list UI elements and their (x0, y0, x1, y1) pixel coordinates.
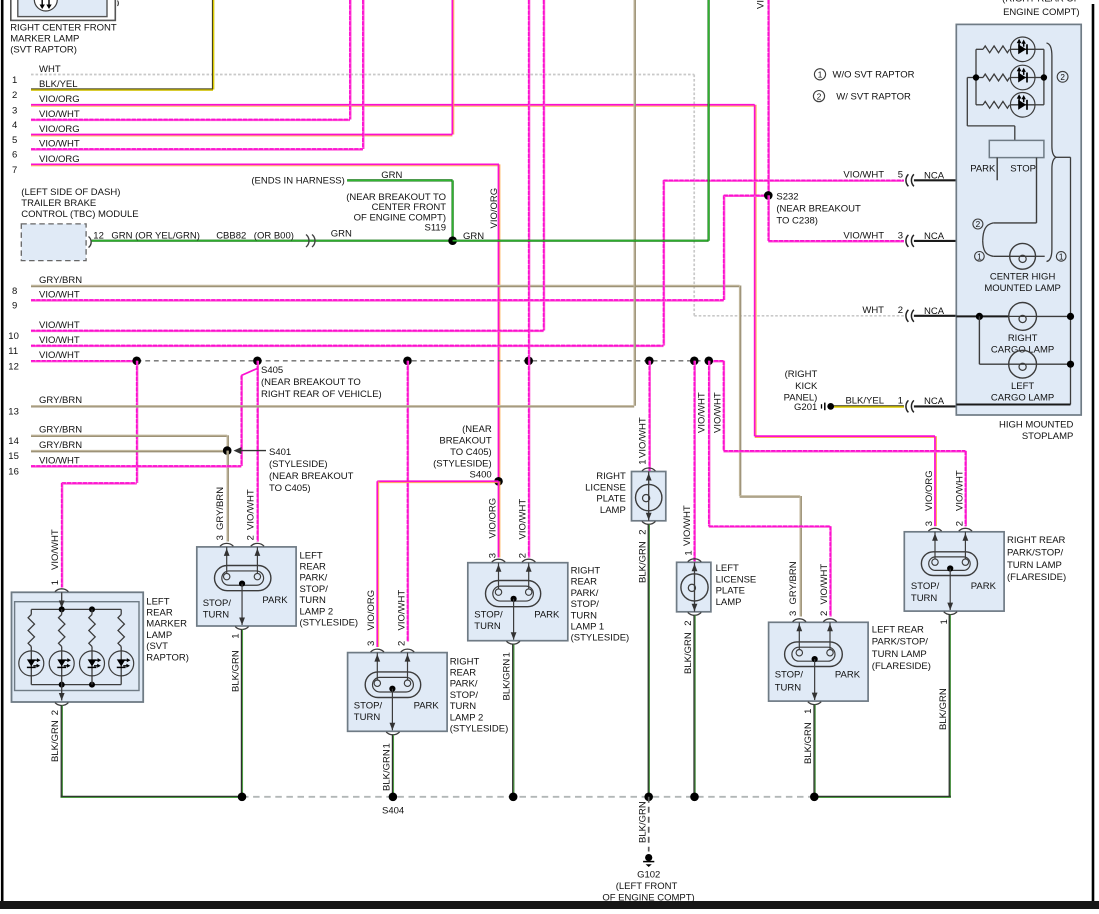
wire 5 VIO/ORG horizontal (31, 134, 452, 136)
LED row 3 with resistor (976, 104, 983, 106)
splice S405 dot 1 and drop to marker lamp pin 1 (132, 357, 141, 366)
svg-text:3: 3 (924, 521, 935, 526)
wire 3 VIO/ORG horizontal y436 to x935 (755, 435, 935, 437)
connector PARK/STOP box (989, 140, 1044, 157)
svg-text:PARK: PARK (971, 581, 997, 592)
svg-text:PARK/STOP/: PARK/STOP/ (1007, 548, 1063, 559)
svg-text:GRY/BRN: GRY/BRN (39, 440, 82, 451)
wire 9 VIO/WHT horizontal (31, 299, 724, 301)
svg-text:CBB82: CBB82 (216, 230, 246, 241)
svg-text:(STYLESIDE): (STYLESIDE) (300, 618, 359, 629)
svg-text:2: 2 (817, 92, 822, 101)
S405 dot 6, drop to left license lamp pin 1 (690, 357, 699, 366)
svg-text:TURN: TURN (300, 595, 327, 606)
svg-text:(STYLESIDE): (STYLESIDE) (571, 633, 630, 644)
svg-text:STOP/: STOP/ (474, 610, 503, 621)
wire BLK/GRN marker lamp to ground bus (61, 705, 63, 797)
svg-text:RIGHT CENTER FRONT: RIGHT CENTER FRONT (10, 23, 117, 34)
svg-text:2: 2 (50, 710, 61, 715)
svg-text:(NEAR BREAKOUT: (NEAR BREAKOUT (269, 471, 354, 482)
pin 2 connector VIO/WHT (823, 619, 836, 622)
svg-text:1: 1 (977, 253, 982, 262)
svg-text:LAMP: LAMP (716, 597, 742, 608)
ground bus dashed middle section (242, 796, 814, 798)
svg-text:LAMP 1: LAMP 1 (571, 622, 605, 633)
svg-text:BLK/GRN: BLK/GRN (50, 720, 61, 762)
wire 8 GRY/BRN jog right at y496 (740, 495, 801, 497)
wire GRN from TBC to S119 (92, 240, 453, 242)
LED bus junction dots (973, 74, 979, 80)
wire 12 dashed section (S405 bus) (137, 360, 709, 362)
svg-text:CARGO LAMP: CARGO LAMP (991, 392, 1054, 403)
S405 dot 5, drop to right license lamp pin 1 (645, 357, 654, 366)
wire GRN from S119 to top edge (453, 240, 709, 242)
svg-text:PARK/STOP/: PARK/STOP/ (872, 637, 928, 648)
svg-text:VIO/ORG: VIO/ORG (366, 590, 377, 631)
splice S119 dot (448, 236, 457, 245)
svg-text:PARK: PARK (414, 701, 440, 712)
svg-text:WHT: WHT (39, 64, 61, 75)
svg-text:LEFT: LEFT (716, 563, 739, 574)
svg-text:VIO/WHT: VIO/WHT (819, 564, 830, 605)
svg-text:GRY/BRN: GRY/BRN (39, 275, 82, 286)
svg-text:2: 2 (637, 530, 648, 535)
svg-text:VIO/WHT: VIO/WHT (697, 392, 708, 433)
svg-text:RIGHT REAR OF VEHICLE): RIGHT REAR OF VEHICLE) (261, 389, 382, 400)
svg-text:2: 2 (1060, 73, 1065, 82)
svg-text:TURN: TURN (911, 593, 938, 604)
svg-text:1: 1 (803, 709, 814, 714)
svg-text:3: 3 (215, 535, 226, 540)
svg-text:S119: S119 (425, 223, 446, 234)
svg-text:(NEAR BREAKOUT TO: (NEAR BREAKOUT TO (261, 377, 361, 388)
node WHT-2 to cargo lamps (956, 315, 1009, 317)
circled 2 above brace (973, 219, 983, 229)
wire 2 BLK/YEL horizontal (31, 88, 213, 90)
svg-text:GRN: GRN (331, 229, 352, 240)
svg-text:LEFT: LEFT (146, 596, 169, 607)
wire BLK/YEL G201 to NCA pin 1 (834, 405, 904, 407)
alternatives brace at NCA pin 3 (983, 223, 994, 241)
wire 4 VIO/WHT vertical to top (349, 0, 351, 120)
svg-text:RIGHT: RIGHT (450, 656, 480, 667)
wire 16 VIO/WHT horizontal (31, 465, 241, 467)
svg-text:STOP/: STOP/ (775, 670, 804, 681)
svg-text:VIO/WHT: VIO/WHT (39, 335, 80, 346)
pin 1 connector BLK/GRN (507, 641, 520, 644)
wire 12 VIO/WHT solid start (31, 360, 137, 362)
svg-text:OF ENGINE COMPT): OF ENGINE COMPT) (602, 892, 694, 903)
svg-text:TURN: TURN (571, 610, 598, 621)
bulb right license (648, 472, 650, 485)
wire 7 VIO/ORG vertical down to S400 (498, 164, 500, 481)
svg-text:GRY/BRN: GRY/BRN (215, 487, 226, 530)
svg-text:STOP/: STOP/ (571, 599, 600, 610)
svg-text:TO C405): TO C405) (450, 447, 492, 458)
svg-text:7: 7 (12, 165, 17, 176)
LED row 1 with resistor (976, 48, 983, 50)
pin 2 connector VIO/WHT (401, 649, 414, 652)
svg-text:2: 2 (683, 621, 694, 626)
svg-text:11: 11 (8, 346, 18, 357)
svg-text:5: 5 (898, 170, 903, 181)
wire 11 VIO/WHT to NCA pin 5 (664, 180, 904, 182)
wire from bracket to right-side rail (1056, 156, 1071, 158)
svg-text:VIO/WHT: VIO/WHT (50, 529, 61, 570)
svg-text:VIO/WHT: VIO/WHT (843, 170, 884, 181)
svg-text:VIO/WHT: VIO/WHT (843, 230, 884, 241)
svg-text:MARKER LAMP: MARKER LAMP (10, 34, 79, 45)
svg-text:STOP/: STOP/ (450, 690, 479, 701)
svg-text:1: 1 (898, 395, 903, 406)
wire 1 WHT horizontal (31, 74, 694, 76)
svg-text:BLK/GRN: BLK/GRN (637, 801, 648, 843)
dual filament bulb lamp2-left (215, 566, 271, 591)
svg-text:LAMP 2: LAMP 2 (300, 606, 334, 617)
svg-text:3: 3 (366, 641, 377, 646)
wire VIO/WHT S232 to NCA pin 3 (768, 195, 770, 241)
pin 2 connector VIO/WHT (522, 559, 535, 562)
svg-text:GRY/BRN: GRY/BRN (39, 395, 82, 406)
wire BLK/GRN right flareside down to ground bus elbow (949, 615, 951, 797)
svg-text:(FLARESIDE): (FLARESIDE) (872, 661, 931, 672)
LED right bus (1043, 49, 1045, 105)
svg-text:STOP/: STOP/ (911, 581, 940, 592)
legend circled 1 W/O SVT RAPTOR (814, 69, 825, 80)
svg-text:(STYLESIDE): (STYLESIDE) (269, 459, 328, 470)
marker lamp LED branches (30, 609, 32, 614)
svg-text:2: 2 (396, 641, 407, 646)
svg-text:VIO/ORG: VIO/ORG (756, 0, 767, 9)
page left border (1, 0, 4, 901)
svg-text:RIGHT: RIGHT (571, 566, 601, 577)
svg-text:8: 8 (12, 286, 17, 297)
svg-text:G102: G102 (637, 870, 660, 881)
svg-text:15: 15 (8, 451, 19, 462)
svg-text:1: 1 (1059, 253, 1064, 262)
LED left bus (975, 49, 977, 105)
svg-text:VIO/ORG: VIO/ORG (39, 154, 80, 165)
svg-text:1: 1 (50, 580, 61, 585)
wire NCA-1 ground rail inside box (956, 404, 1070, 406)
svg-text:KICK: KICK (795, 381, 818, 392)
svg-text:LAMP: LAMP (146, 630, 172, 641)
pin 1 connector BLK/GRN (235, 627, 248, 630)
wire 10 VIO/WHT horizontal (31, 330, 544, 332)
wire BLK/GRN left license to ground bus (693, 615, 695, 797)
S405 dot 2, drop to lamp2-left pin 2, diagonal to wire 16 (253, 357, 262, 366)
pin 3 connector GRY/BRN (793, 619, 806, 622)
wire BLK/GRN right license to ground bus (648, 524, 650, 797)
svg-text:3: 3 (788, 611, 799, 616)
svg-text:1: 1 (818, 71, 823, 80)
wire BLK/GRN left flareside to ground bus (813, 705, 815, 797)
svg-text:VIO/WHT: VIO/WHT (713, 392, 724, 433)
marker lamp pin 2 connector (61, 685, 63, 701)
lamp RIGHT CENTER FRONT MARKER LAMP (cut off at top) (11, 0, 116, 20)
svg-text:BLK/GRN: BLK/GRN (637, 541, 648, 583)
svg-text:STOPLAMP: STOPLAMP (1022, 431, 1074, 442)
dual filament bulb lamp2-right (365, 672, 421, 698)
svg-text:13: 13 (8, 406, 19, 417)
svg-text:ENGINE COMPT): ENGINE COMPT) (1003, 7, 1080, 18)
lamp LEFT REAR MARKER LAMP (SVT RAPTOR) box (12, 592, 144, 702)
svg-text:WHT: WHT (862, 305, 884, 316)
svg-text:REAR: REAR (300, 562, 327, 573)
pin 1 connector BLK/GRN (808, 702, 821, 705)
ground G102 symbol (645, 854, 652, 861)
svg-text:GRN: GRN (381, 170, 402, 181)
svg-text:VIO/ORG: VIO/ORG (487, 498, 498, 539)
svg-text:2: 2 (976, 220, 981, 229)
svg-text:RIGHT REAR: RIGHT REAR (1007, 535, 1066, 546)
svg-text:BLK/GRN: BLK/GRN (502, 659, 513, 701)
ground bus junction dots (238, 793, 247, 802)
svg-text:16: 16 (8, 467, 19, 478)
svg-text:BLK/YEL: BLK/YEL (845, 395, 884, 406)
svg-text:2: 2 (12, 90, 17, 101)
svg-text:(FLARESIDE): (FLARESIDE) (1007, 572, 1066, 583)
wire 8 GRY/BRN horizontal (31, 285, 740, 287)
marker lamp internal buses (31, 608, 121, 610)
wire 6 VIO/WHT vertical to top (362, 0, 364, 149)
inline connector on GRN wire (306, 235, 309, 248)
wire 11 VIO/WHT vertical up at x663.5 (663, 180, 665, 345)
splice S401 dot and drop to lamp2-left pin 3 (223, 446, 232, 455)
left license pin 2 connector (688, 612, 701, 615)
feed from LED row2 to connector (966, 78, 968, 126)
svg-text:BLK/YEL: BLK/YEL (39, 79, 78, 90)
svg-text:(NEAR BREAKOUT: (NEAR BREAKOUT (776, 204, 861, 215)
svg-text:CONTROL (TBC) MODULE: CONTROL (TBC) MODULE (21, 209, 138, 220)
wire cargo left rail (978, 316, 980, 364)
wire 3 VIO/ORG vertical down at x754.7 (754, 105, 756, 436)
svg-text:2: 2 (819, 611, 830, 616)
svg-text:9: 9 (12, 301, 17, 312)
svg-text:LICENSE: LICENSE (716, 574, 757, 585)
svg-text:1: 1 (683, 550, 694, 555)
circled 2 marker beside LED group (1057, 71, 1068, 82)
svg-text:VIO/ORG: VIO/ORG (39, 94, 80, 105)
svg-text:G201: G201 (794, 402, 817, 413)
circled 1 left of center lamp (975, 251, 985, 261)
svg-text:VIO/WHT: VIO/WHT (954, 470, 965, 511)
svg-text:(NEAR: (NEAR (462, 424, 492, 435)
wire 12 end elbow to right flareside pin 2 (709, 360, 724, 362)
svg-text:TURN LAMP: TURN LAMP (1007, 560, 1062, 571)
svg-text:(LEFT SIDE OF DASH): (LEFT SIDE OF DASH) (21, 187, 120, 198)
svg-text:LEFT: LEFT (1011, 381, 1034, 392)
svg-text:W/O SVT RAPTOR: W/O SVT RAPTOR (833, 70, 915, 81)
svg-text:PLATE: PLATE (716, 586, 745, 597)
svg-text:PLATE: PLATE (596, 494, 625, 505)
dual filament bulb left flareside (785, 642, 843, 667)
wire 7 VIO/ORG horizontal (31, 163, 499, 165)
svg-text:BLK/GRN: BLK/GRN (381, 749, 392, 791)
svg-text:1: 1 (939, 619, 950, 624)
svg-text:TURN: TURN (450, 701, 477, 712)
svg-text:VIO/WHT: VIO/WHT (39, 320, 80, 331)
S405 dot 4 at x528.7 with riser to top and drop to lamp1 pin 2 (524, 357, 533, 366)
svg-text:TRAILER BRAKE: TRAILER BRAKE (21, 198, 96, 209)
wire BLK/GRN ground bus solid left section (61, 796, 242, 798)
wire 1 WHT to NCA pin 2 (694, 315, 904, 317)
wire VIO/ORG S400 branch left to lamp2-right pin 3 (377, 480, 498, 482)
svg-text:VIO/WHT: VIO/WHT (39, 455, 80, 466)
svg-text:1: 1 (638, 460, 649, 465)
wire BLK/GRN lamp2-left to ground bus (241, 630, 243, 797)
PARK pin drop line (996, 158, 998, 181)
svg-text:10: 10 (8, 331, 19, 342)
LED group bracket (tall brace) (1047, 43, 1057, 262)
svg-text:3: 3 (898, 230, 903, 241)
svg-text:TURN: TURN (354, 712, 381, 723)
pin 3 connector VIO/ORG (371, 649, 384, 652)
bulb RIGHT CARGO LAMP (1009, 303, 1037, 331)
svg-text:TURN: TURN (203, 609, 230, 620)
pin 1 connector BLK/GRN (386, 732, 399, 735)
svg-text:TURN: TURN (474, 621, 501, 632)
svg-text:STOP: STOP (1010, 163, 1036, 174)
svg-text:3: 3 (12, 105, 17, 116)
right license pin 1 connector (642, 468, 655, 471)
pin 2 connector VIO/WHT (959, 528, 972, 531)
svg-text:3: 3 (487, 553, 498, 558)
svg-text:1: 1 (381, 743, 392, 748)
svg-text:LEFT: LEFT (300, 550, 323, 561)
wire BLK/GRN lamp1 to ground bus (512, 644, 514, 797)
wire 8 GRY/BRN down to left flareside pin 3 (799, 496, 801, 617)
svg-text:BLK/GRN: BLK/GRN (683, 632, 694, 674)
lamp RIGHT REAR PARK/STOP/TURN LAMP 1 (STYLESIDE) box (468, 563, 568, 641)
svg-text:(SVT: (SVT (146, 641, 168, 652)
svg-text:(RIGHT REAR OF: (RIGHT REAR OF (1002, 0, 1080, 5)
pin 2 connector VIO/WHT (251, 543, 264, 546)
wire 14 GRY/BRN horizontal, elbow down to S401 (31, 434, 227, 436)
svg-text:VIO/WHT: VIO/WHT (638, 417, 649, 458)
svg-text:VIO/WHT: VIO/WHT (518, 499, 529, 540)
svg-text:2: 2 (246, 535, 257, 540)
svg-text:VIO/WHT: VIO/WHT (39, 138, 80, 149)
pin 3 connector VIO/ORG (928, 528, 941, 531)
wire 1 WHT vertical down at x694 (693, 75, 695, 316)
lamp LEFT LICENSE PLATE LAMP box (677, 562, 711, 612)
svg-text:VIO/ORG: VIO/ORG (489, 188, 500, 229)
svg-text:GRY/BRN: GRY/BRN (788, 561, 799, 604)
ground bus solid right section to right flareside (814, 796, 951, 798)
pin 3 connector GRY/BRN (220, 543, 233, 546)
dual filament bulb lamp1 (486, 581, 541, 607)
lamp RIGHT LICENSE PLATE LAMP box (632, 472, 666, 521)
wire 5 VIO/ORG vertical to top (451, 0, 453, 135)
wire BLK/GRN lamp2-right to ground bus (392, 735, 394, 797)
wire 8 GRY/BRN vertical down at x739.6 (739, 286, 741, 497)
svg-text:BLK/GRN: BLK/GRN (938, 688, 949, 730)
svg-text:REAR: REAR (450, 668, 477, 679)
svg-text:REAR: REAR (146, 608, 173, 619)
bulb LEFT CARGO LAMP (979, 363, 1008, 365)
svg-text:BLK/GRN: BLK/GRN (230, 650, 241, 692)
lamp RIGHT REAR PARK/STOP/TURN LAMP (FLARESIDE) box (904, 532, 1004, 611)
svg-text:S400: S400 (470, 470, 492, 481)
svg-text:1: 1 (502, 652, 513, 657)
wire BLK/GRN dashed drop to G102 (648, 797, 650, 852)
STOP pin drop line (1036, 158, 1038, 223)
svg-text:(LEFT FRONT: (LEFT FRONT (616, 881, 678, 892)
wire 3 VIO/ORG down to right flareside pin 3 (934, 436, 936, 526)
page right border (1092, 4, 1095, 901)
svg-text:6: 6 (12, 150, 17, 161)
bulb left license (694, 562, 696, 575)
splice S400 dot (494, 477, 503, 486)
svg-text:(RIGHT: (RIGHT (785, 369, 818, 380)
S401 pointer arrow (240, 450, 266, 452)
svg-text:2: 2 (518, 553, 529, 558)
svg-text:TO C238): TO C238) (776, 216, 818, 227)
right license pin 2 connector (642, 521, 655, 524)
svg-text:2: 2 (954, 521, 965, 526)
svg-text:VIO/WHT: VIO/WHT (682, 505, 693, 546)
svg-text:2: 2 (898, 305, 903, 316)
svg-text:PARK/: PARK/ (450, 679, 478, 690)
svg-text:LICENSE: LICENSE (585, 482, 626, 493)
svg-text:PARK: PARK (534, 610, 560, 621)
svg-text:VIO/WHT: VIO/WHT (39, 350, 80, 361)
svg-text:VIO/WHT: VIO/WHT (39, 109, 80, 120)
wire VIO/WHT from top to splice S232 (768, 0, 770, 195)
svg-text:S401: S401 (269, 447, 291, 458)
legend circled 2 W/ SVT RAPTOR (813, 91, 824, 102)
svg-text:REAR: REAR (571, 577, 598, 588)
svg-text:(SVT RAPTOR): (SVT RAPTOR) (10, 45, 77, 56)
svg-text:TO C405): TO C405) (269, 483, 311, 494)
wire 15 GRY/BRN horizontal (31, 450, 227, 452)
svg-text:LAMP: LAMP (600, 505, 626, 516)
svg-text:GRY/BRN: GRY/BRN (39, 425, 82, 436)
pin 3 connector VIO/ORG (492, 559, 505, 562)
svg-text:MOUNTED LAMP: MOUNTED LAMP (984, 283, 1061, 294)
S405 dot 7, elbow to left flareside pin 2 (705, 357, 714, 366)
svg-text:S232: S232 (776, 192, 798, 203)
svg-text:BREAKOUT: BREAKOUT (439, 436, 491, 447)
svg-text:STOP/: STOP/ (203, 598, 232, 609)
svg-text:LAMP 2: LAMP 2 (450, 712, 484, 723)
svg-text:12: 12 (8, 361, 19, 372)
svg-text:1: 1 (12, 75, 17, 86)
svg-text:TURN: TURN (775, 682, 802, 693)
svg-text:PARK: PARK (262, 595, 288, 606)
svg-text:5: 5 (12, 135, 17, 146)
S405 dot 3, drop to lamp2-right pin 2 (403, 357, 412, 366)
circled 1 right of center lamp (1056, 252, 1066, 262)
wire 9 VIO/WHT vertical up at x723.7 (723, 195, 725, 300)
svg-text:PARK/: PARK/ (300, 573, 328, 584)
wire 2 BLK/YEL vertical to top (212, 0, 214, 90)
left license pin 1 connector (688, 559, 701, 562)
svg-text:VIO/WHT: VIO/WHT (396, 590, 407, 631)
svg-text:CENTER HIGH: CENTER HIGH (990, 271, 1056, 282)
pin 1 connector BLK/GRN (944, 612, 957, 615)
TBC pin 12 connector (89, 237, 92, 248)
svg-text:VIO/ORG: VIO/ORG (924, 470, 935, 511)
wire 11 VIO/WHT horizontal (31, 345, 664, 347)
wire 4 VIO/WHT horizontal (31, 119, 350, 121)
svg-text:(OR B00): (OR B00) (254, 230, 294, 241)
svg-text:BLK/GRN: BLK/GRN (803, 722, 814, 764)
lamp RIGHT REAR PARK/STOP/TURN LAMP 2 (STYLESIDE) box (348, 653, 448, 732)
svg-text:(ENDS IN HARNESS): (ENDS IN HARNESS) (251, 176, 344, 187)
wire 6 VIO/WHT horizontal (31, 148, 363, 150)
